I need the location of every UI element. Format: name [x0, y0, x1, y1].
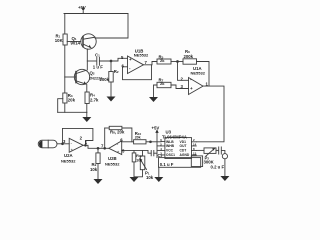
svg-text:Q2: Q2: [90, 71, 95, 76]
svg-text:2.7k: 2.7k: [90, 98, 99, 103]
svg-text:OSC1: OSC1: [166, 153, 175, 157]
svg-text:+: +: [71, 148, 74, 153]
svg-text:9014: 9014: [71, 40, 81, 45]
svg-text:-: -: [117, 141, 119, 146]
svg-text:U2A: U2A: [64, 153, 73, 158]
svg-text:U3: U3: [166, 129, 172, 134]
svg-text:2k: 2k: [160, 58, 165, 63]
svg-text:+5V: +5V: [78, 5, 86, 10]
svg-text:VCC: VCC: [166, 149, 174, 153]
svg-text:3: 3: [63, 139, 66, 144]
svg-text:R2: R2: [114, 69, 119, 74]
svg-text:200k: 200k: [184, 54, 194, 59]
svg-text:5: 5: [122, 148, 125, 153]
svg-text:2k: 2k: [160, 81, 165, 86]
svg-text:20k: 20k: [135, 136, 141, 140]
svg-text:INHB: INHB: [166, 144, 175, 148]
svg-text:10k: 10k: [146, 175, 154, 180]
svg-text:10K: 10K: [55, 38, 64, 43]
svg-text:R8, 20k: R8, 20k: [110, 130, 125, 135]
svg-text:20k: 20k: [68, 98, 76, 103]
svg-text:NE5532: NE5532: [105, 162, 120, 167]
svg-text:7: 7: [145, 60, 148, 65]
svg-text:OUT: OUT: [180, 144, 187, 148]
svg-text:5: 5: [121, 55, 124, 60]
svg-text:+: +: [190, 86, 193, 91]
svg-text:NE5532: NE5532: [191, 70, 206, 75]
svg-text:NE5532: NE5532: [61, 159, 76, 164]
svg-text:14: 14: [193, 143, 197, 147]
svg-text:NE5532: NE5532: [134, 53, 149, 58]
svg-text:-: -: [71, 141, 73, 146]
svg-text:CDT: CDT: [180, 149, 187, 153]
svg-text:1 u F: 1 u F: [93, 65, 103, 70]
svg-text:6: 6: [122, 64, 125, 69]
svg-text:2: 2: [80, 135, 83, 140]
svg-text:200k: 200k: [100, 77, 110, 82]
svg-text:R11: R11: [136, 154, 142, 158]
svg-text:AGND: AGND: [180, 153, 190, 157]
svg-text:0.1 u F: 0.1 u F: [160, 162, 174, 167]
svg-text:+: +: [117, 150, 120, 155]
svg-text:U2B: U2B: [108, 156, 117, 161]
svg-text:10k: 10k: [136, 159, 142, 163]
svg-text:TL064/MP4A: TL064/MP4A: [162, 135, 187, 140]
svg-text:C1: C1: [95, 53, 100, 58]
svg-text:13: 13: [193, 152, 197, 156]
svg-text:10k: 10k: [90, 167, 98, 172]
svg-text:+: +: [129, 57, 132, 62]
svg-text:-: -: [129, 66, 131, 71]
svg-text:0.2 u F: 0.2 u F: [211, 165, 225, 170]
svg-text:+5V: +5V: [152, 126, 160, 131]
